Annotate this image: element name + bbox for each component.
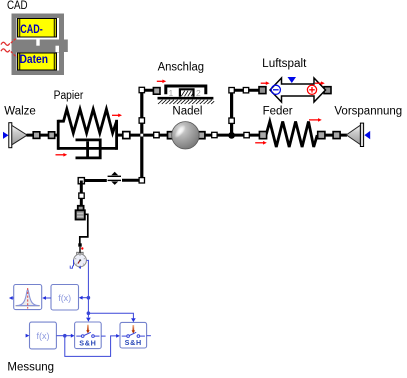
junction to S&H2 line [87, 311, 91, 315]
node handle nadel right [212, 132, 217, 137]
node handle corner anschlag [139, 87, 144, 92]
output stub S&H1 [101, 335, 105, 337]
table block CAD-Daten frame [12, 14, 68, 76]
flange feder left [259, 132, 266, 139]
signal wire to gauge [80, 214, 88, 243]
flange nadel right [198, 132, 205, 139]
output stub S&H2 [147, 335, 151, 337]
svg-text:S&H: S&H [125, 338, 142, 347]
red arrow papier bottom [56, 153, 68, 157]
svg-text:CAD-: CAD- [20, 24, 43, 36]
red arrow anschlag [157, 80, 166, 84]
flange papier a [49, 132, 55, 139]
spring-damper Papier [58, 109, 122, 158]
wire to luftspalt [232, 89, 261, 92]
block gaussian [14, 285, 42, 310]
electromagnet gap Luftspalt [270, 77, 326, 102]
red signal squiggle lower [1, 49, 10, 52]
svg-text:Anschlag: Anschlag [158, 62, 204, 74]
svg-text:Daten: Daten [20, 54, 49, 66]
svg-text:CAD: CAD [7, 0, 28, 12]
svg-text:Messung: Messung [7, 362, 54, 374]
wire bus left vertical [140, 89, 143, 180]
tiny blue mark right [79, 266, 81, 269]
wire sensor row [122, 179, 142, 182]
wire main row center [126, 134, 170, 137]
svg-text:f(x): f(x) [37, 331, 50, 341]
blue bus from gauge [87, 260, 89, 317]
node crossing center [140, 134, 143, 137]
block S&H 1 [75, 322, 102, 349]
svg-text:Walze: Walze [4, 106, 36, 118]
mass sphere Nadel [172, 122, 199, 149]
node handle sensor left [78, 178, 84, 184]
wire walze-papier [27, 134, 60, 137]
wire feder-vorspannung [317, 134, 347, 137]
stop Anschlag [158, 86, 215, 104]
input arrow fx lower [26, 334, 30, 338]
relative sensor symbol [108, 172, 121, 185]
blue stub gauge left [73, 260, 75, 267]
red dot [81, 247, 83, 249]
svg-text:2: 2 [196, 88, 201, 98]
wire bus right vertical [230, 89, 233, 136]
node handle corner luftspalt [229, 88, 234, 93]
node handle bus left y120 [139, 118, 144, 123]
node handle corner sensor row [139, 178, 144, 183]
spring Feder [266, 122, 317, 148]
junction dot main row [228, 132, 235, 139]
node handle papier b [123, 132, 130, 139]
svg-text:Feder: Feder [263, 106, 293, 118]
wire to anschlag [142, 89, 160, 92]
svg-text:Vorspannung: Vorspannung [334, 106, 402, 118]
block fx upper [51, 285, 79, 311]
svg-text:Nadel: Nadel [172, 106, 202, 118]
wire down to support [80, 181, 83, 208]
node handle luftspalt a [243, 88, 248, 93]
wire junction to S&H1 [65, 335, 71, 337]
flange walze [33, 132, 40, 139]
support plug connector [76, 206, 85, 220]
node handle bus right y120 [229, 118, 234, 123]
table Daten (yellow) [18, 53, 57, 70]
svg-text:Papier: Papier [54, 90, 84, 102]
connector square above gauge [78, 243, 81, 246]
node handle right of crossing [154, 132, 159, 137]
fixed Walze [3, 123, 27, 148]
flange feder right [318, 132, 325, 139]
tiny blue mark left [70, 266, 72, 269]
svg-text:1: 1 [169, 88, 174, 98]
red arrow feder top [309, 118, 322, 122]
block fx lower [30, 322, 57, 349]
junction to fx upper [87, 296, 91, 300]
flange anschlag [153, 88, 160, 95]
svg-text:S&H: S&H [79, 338, 96, 347]
arrowhead into S&H1 top [86, 318, 91, 322]
flange luftspalt left [259, 87, 266, 94]
block S&H 2 [120, 322, 147, 348]
red arrow feder bottom [255, 141, 267, 145]
svg-text:f(x): f(x) [58, 293, 71, 303]
wire to S&H2 top [88, 313, 133, 318]
feedback wire to S&H2 input [65, 336, 117, 357]
flange luftspalt right [324, 87, 331, 94]
red arrow luftspalt right [315, 81, 325, 85]
flange nadel left [168, 132, 175, 139]
red arrow luftspalt left [261, 81, 270, 85]
force Vorspannung [346, 123, 370, 146]
wire fx to junction [56, 335, 64, 337]
wire bus to fx upper [82, 297, 88, 299]
svg-text:Luftspalt: Luftspalt [262, 58, 307, 70]
table CAD- (yellow) [18, 19, 57, 38]
node handle right of junction [244, 132, 249, 137]
node handle mid vertical [79, 193, 84, 198]
red arrow papier top [112, 114, 122, 118]
node handle nadel left [154, 132, 159, 137]
gauge sensor [74, 252, 87, 266]
red signal squiggle upper [1, 42, 10, 45]
wire fx to gaussian [46, 297, 51, 299]
gaussian output arrow [12, 297, 14, 299]
flange vorspannung [333, 132, 340, 139]
